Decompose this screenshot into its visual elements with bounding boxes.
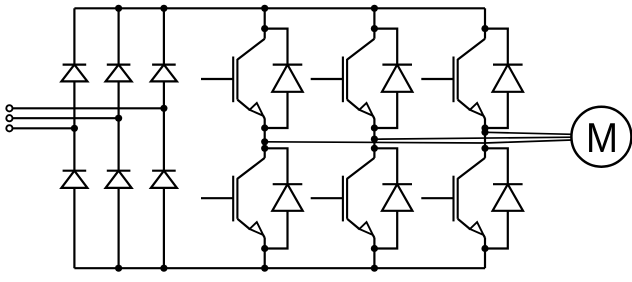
node leg 2 lower junction [371, 245, 378, 252]
wire leg 2 upper diode branch [374, 29, 397, 65]
wire rectifier leg 1 middle [73, 81, 75, 170]
node leg 1 upper split [261, 25, 268, 32]
IGBT Q3 gate lead [421, 78, 453, 80]
node phase L1 junction [160, 105, 167, 112]
IGBT Q4 gate lead [201, 197, 233, 199]
IGBT Q1 emitter arrow [250, 103, 264, 116]
IGBT Q2 body [343, 39, 375, 119]
IGBT Q4 emitter arrow [250, 222, 264, 235]
junction bottom bus / leg 2 [115, 265, 122, 272]
AC input terminal L1 [6, 105, 12, 111]
wire rectifier leg 2 upper [117, 8, 119, 64]
diode D2 [106, 65, 132, 82]
IGBT Q2 emitter arrow [359, 103, 373, 116]
diode D6 [151, 171, 177, 188]
node phase L3 junction [71, 125, 78, 132]
wire leg 1 emitter to midpoint [264, 119, 266, 158]
wire leg 1 upper diode branch [265, 29, 288, 65]
wire leg 1 upper diode to midpoint [265, 92, 288, 128]
node leg 2 lower split [371, 145, 378, 152]
wire leg 3 upper diode to midpoint [485, 92, 508, 128]
motor M [571, 107, 631, 167]
wire leg 3 emitter to midpoint [484, 119, 486, 158]
wire rectifier leg 1 upper [73, 8, 75, 64]
node leg 3 output tap [481, 129, 488, 136]
wire motor phase W (from leg 3) [485, 132, 572, 134]
diode D4 [61, 171, 87, 188]
IGBT Q5 emitter arrow [359, 222, 373, 235]
wire bottom DC bus [74, 267, 485, 269]
wire leg 1 lower diode branch [265, 148, 288, 184]
diode D5 [106, 171, 132, 188]
wire leg 2 lower diode branch [374, 148, 397, 184]
IGBT Q6 gate lead [421, 197, 453, 199]
wire AC phase L1 [13, 107, 164, 109]
junction bottom bus / leg 3 [160, 265, 167, 272]
junction bottom bus / inverter leg 2 [371, 265, 378, 272]
junction bottom bus / inverter leg 1 [261, 265, 268, 272]
junction top bus / inverter leg 1 [261, 5, 268, 12]
node leg 3 lower split [481, 145, 488, 152]
IGBT Q6 emitter arrow [470, 222, 484, 235]
wire leg 3 upper diode branch [485, 29, 508, 65]
node leg 3 lower junction [481, 245, 488, 252]
diode D1 [61, 65, 87, 82]
wire leg 2 emitter to midpoint [373, 119, 375, 158]
wire rectifier leg 3 upper [163, 8, 165, 64]
wire motor phase U (from leg 1) [265, 140, 572, 143]
node leg 2 upper midpoint [371, 124, 378, 131]
node leg 2 output tap [371, 136, 378, 143]
node leg 3 upper midpoint [481, 124, 488, 131]
wire inverter leg 3 from top bus [484, 8, 486, 38]
wire rectifier leg 3 lower [163, 188, 165, 268]
IGBT Q5 gate lead [311, 197, 343, 199]
wire leg 3 to bottom bus [484, 238, 486, 269]
wire leg 3 lower diode to bottom [485, 211, 508, 249]
node leg 1 output tap [261, 138, 268, 145]
IGBT Q1 gate lead [201, 78, 233, 80]
node leg 2 upper split [371, 25, 378, 32]
node leg 1 lower split [261, 145, 268, 152]
diode D12 [493, 184, 523, 211]
wire leg 3 lower diode branch [485, 148, 508, 184]
diode D9 [493, 65, 523, 92]
diode D10 [272, 184, 302, 211]
wire rectifier leg 2 lower [117, 188, 119, 268]
IGBT Q6 body [454, 158, 486, 238]
wire leg 2 lower diode to bottom [374, 211, 397, 249]
node phase L2 junction [115, 115, 122, 122]
AC input terminal L2 [6, 115, 12, 121]
wire AC phase L3 [13, 127, 75, 129]
wire AC phase L2 [13, 117, 119, 119]
junction top bus / inverter leg 2 [371, 5, 378, 12]
wire inverter leg 2 from top bus [373, 8, 375, 38]
junction top bus / leg 3 [160, 5, 167, 12]
wire leg 1 lower diode to bottom [265, 211, 288, 249]
wire rectifier leg 3 middle [163, 81, 165, 170]
wire motor phase V (from leg 2) [374, 137, 571, 139]
wire rectifier leg 1 lower [73, 188, 75, 268]
IGBT Q4 body [233, 158, 265, 238]
diode D8 [382, 65, 412, 92]
wire leg 2 upper diode to midpoint [374, 92, 397, 128]
wire inverter leg 1 from top bus [264, 8, 266, 38]
IGBT Q3 body [454, 39, 486, 119]
diode D3 [151, 65, 177, 82]
node leg 1 upper midpoint [261, 124, 268, 131]
wire rectifier leg 2 middle [117, 81, 119, 170]
svg-text:M: M [586, 113, 618, 161]
diode D11 [382, 184, 412, 211]
wire leg 1 to bottom bus [264, 238, 266, 269]
IGBT Q2 gate lead [311, 78, 343, 80]
junction top bus / leg 2 [115, 5, 122, 12]
node leg 3 upper split [481, 25, 488, 32]
node leg 1 lower junction [261, 245, 268, 252]
IGBT Q3 emitter arrow [470, 103, 484, 116]
IGBT Q5 body [343, 158, 375, 238]
diode D7 [272, 65, 302, 92]
wire leg 2 to bottom bus [373, 238, 375, 269]
wire top DC bus [74, 7, 485, 9]
IGBT Q1 body [233, 39, 265, 119]
AC input terminal L3 [6, 125, 12, 131]
